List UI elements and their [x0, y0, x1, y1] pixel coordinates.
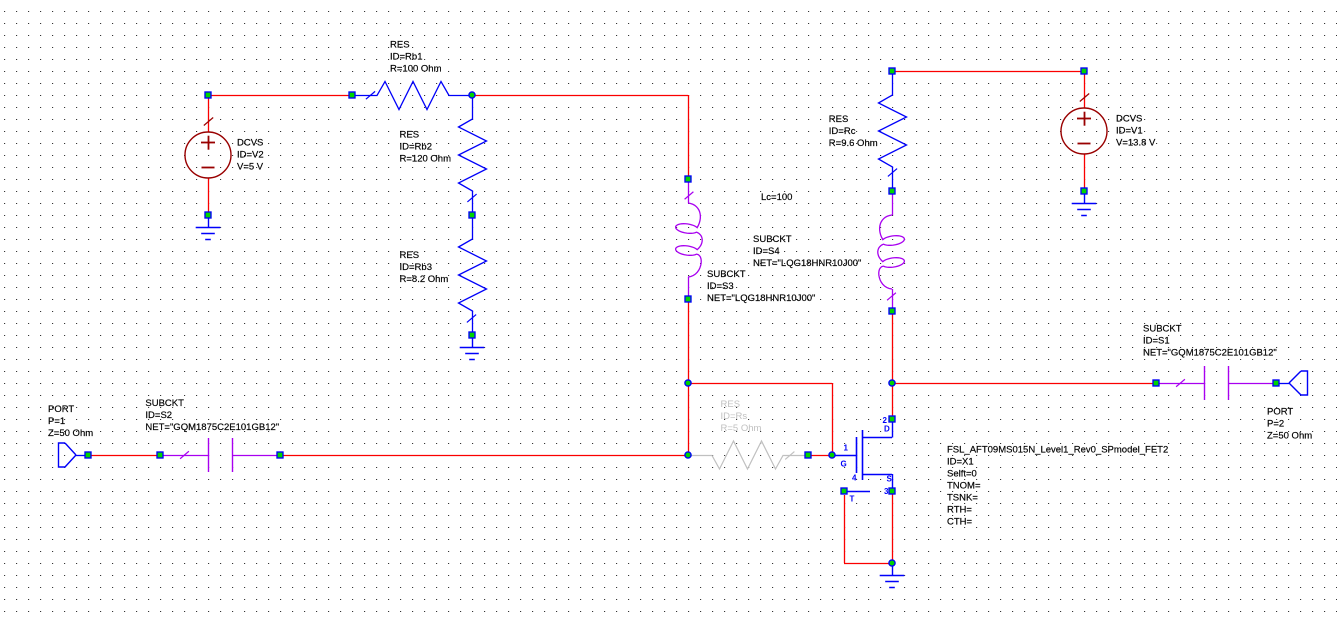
svg-text:NET="LQG18HNR10J00": NET="LQG18HNR10J00": [707, 293, 815, 304]
svg-text:4: 4: [852, 474, 857, 483]
svg-text:P=1: P=1: [48, 416, 65, 427]
svg-text:V=13.8 V: V=13.8 V: [1116, 138, 1156, 149]
svg-text:R=120 Ohm: R=120 Ohm: [400, 154, 452, 165]
svg-text:ID=Rs: ID=Rs: [721, 411, 748, 422]
svg-text:D: D: [884, 425, 890, 434]
svg-text:RES: RES: [400, 250, 420, 261]
svg-text:1: 1: [844, 443, 849, 452]
svg-text:R=9.6 Ohm: R=9.6 Ohm: [829, 138, 878, 149]
svg-text:DCVS: DCVS: [237, 137, 263, 148]
svg-text:NET="GQM1875C2E101GB12": NET="GQM1875C2E101GB12": [145, 422, 279, 433]
svg-text:PORT: PORT: [1267, 407, 1293, 418]
svg-text:Z=50 Ohm: Z=50 Ohm: [48, 428, 93, 439]
svg-text:ID=S1: ID=S1: [1143, 336, 1170, 347]
svg-text:Z=50 Ohm: Z=50 Ohm: [1267, 431, 1312, 442]
svg-text:G: G: [841, 459, 847, 468]
svg-text:RTH=: RTH=: [947, 504, 972, 515]
svg-text:2: 2: [883, 416, 888, 425]
svg-text:P=2: P=2: [1267, 419, 1284, 430]
svg-text:ID=Rb3: ID=Rb3: [400, 262, 432, 273]
svg-text:FSL_AFT09MS015N_Level1_Rev0_SP: FSL_AFT09MS015N_Level1_Rev0_SPmodel_FET2: [947, 444, 1168, 455]
svg-text:SUBCKT: SUBCKT: [753, 234, 792, 245]
svg-text:TNOM=: TNOM=: [947, 480, 981, 491]
svg-text:ID=S3: ID=S3: [707, 281, 734, 292]
svg-text:CTH=: CTH=: [947, 516, 973, 527]
svg-text:3: 3: [884, 487, 889, 496]
svg-text:RES: RES: [721, 399, 741, 410]
svg-text:SUBCKT: SUBCKT: [707, 269, 746, 280]
svg-text:ID=Rc: ID=Rc: [829, 126, 856, 137]
svg-text:TSNK=: TSNK=: [947, 492, 978, 503]
svg-text:ID=V2: ID=V2: [237, 149, 264, 160]
svg-text:ID=X1: ID=X1: [947, 456, 974, 467]
svg-text:ID=S4: ID=S4: [753, 246, 780, 257]
svg-text:T: T: [850, 495, 855, 504]
svg-text:SUBCKT: SUBCKT: [145, 398, 184, 409]
svg-text:SUBCKT: SUBCKT: [1143, 324, 1182, 335]
svg-text:V=5 V: V=5 V: [237, 161, 264, 172]
svg-text:R=100 Ohm: R=100 Ohm: [390, 64, 442, 75]
svg-text:DCVS: DCVS: [1116, 114, 1142, 125]
svg-text:NET="GQM1875C2E101GB12": NET="GQM1875C2E101GB12": [1143, 348, 1277, 359]
svg-text:Lc=100: Lc=100: [761, 192, 792, 203]
svg-text:R=8.2 Ohm: R=8.2 Ohm: [400, 274, 449, 285]
svg-text:ID=S2: ID=S2: [145, 410, 172, 421]
svg-text:ID=V1: ID=V1: [1116, 126, 1143, 137]
svg-text:RES: RES: [390, 40, 410, 51]
svg-text:ID=Rb1: ID=Rb1: [390, 52, 422, 63]
svg-text:NET="LQG18HNR10J00": NET="LQG18HNR10J00": [753, 258, 861, 269]
svg-text:PORT: PORT: [48, 404, 74, 415]
svg-text:RES: RES: [400, 130, 420, 141]
svg-text:S: S: [887, 475, 893, 484]
svg-text:R=5 Ohm: R=5 Ohm: [721, 423, 762, 434]
svg-text:Selft=0: Selft=0: [947, 468, 977, 479]
svg-text:RES: RES: [829, 114, 849, 125]
svg-text:ID=Rb2: ID=Rb2: [400, 142, 432, 153]
